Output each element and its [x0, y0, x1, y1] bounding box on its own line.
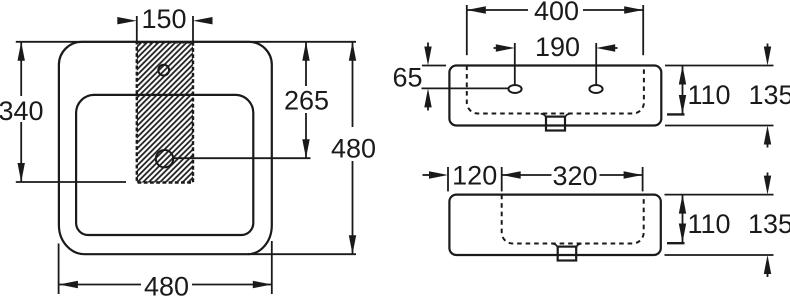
dimension 150 extension ticks [136, 16, 138, 44]
svg-text:320: 320 [552, 161, 597, 191]
dimension 480 bottom arrows [59, 281, 78, 288]
dimension 480 right arrows [349, 42, 356, 61]
leader line from drain hole to 265 dimension [174, 157, 311, 159]
svg-text:110: 110 [687, 209, 730, 239]
dimension 65 top tick [422, 65, 446, 67]
dimension 110 line (side view) [682, 195, 684, 243]
side view drain box [558, 247, 577, 261]
dimension 265 line [305, 42, 307, 86]
dimension 340 line [20, 42, 22, 96]
front view slab outline [449, 66, 661, 126]
front view right bottom extension line [665, 125, 774, 127]
svg-text:190: 190 [535, 32, 580, 62]
svg-text:265: 265 [284, 86, 329, 116]
dimension 135 top arrow (front view) [767, 44, 769, 51]
dimension 120/320 shared tick [501, 167, 503, 191]
front view faucet hole ellipses [508, 85, 521, 93]
dimension 110 bottom tick (side view) [667, 242, 685, 244]
inner basin rim (plan view) [76, 95, 253, 235]
outer basin outline (plan view 480x480) [59, 42, 272, 254]
front view drain left hook [541, 114, 546, 119]
dimension 120 left arrow [423, 174, 430, 176]
dimension 65 arrows [427, 43, 429, 51]
dimension 120 extension tick left [447, 167, 449, 191]
dimension 320 arrows [502, 171, 521, 178]
svg-text:65: 65 [392, 63, 422, 93]
dimension 480 bottom line [59, 284, 141, 286]
svg-text:135: 135 [748, 209, 790, 239]
front view drain right hook [565, 114, 570, 119]
dimension 400 extension lines [466, 5, 468, 55]
hatched tap platform area [137, 42, 193, 182]
dimension 150 arrows (outside, pointing inward) [117, 17, 137, 24]
dimension 320 line [502, 174, 552, 176]
dimension 190 arrows (outside, pointing inward) [494, 47, 501, 49]
svg-text:150: 150 [141, 4, 186, 34]
front view drain box [546, 117, 565, 131]
side view right top extension line [665, 194, 774, 196]
faucet hole (small circle) [158, 65, 169, 76]
drain hole (large circle) [156, 150, 173, 167]
dimension 400 line [467, 9, 528, 11]
faucet hole extension lines up (190 dimension) [514, 43, 516, 85]
side view right bottom extension line [665, 254, 774, 256]
bottom-right reference line for 480 right dimension [248, 253, 356, 255]
dimension 480 right line [352, 42, 354, 127]
dimension 110 bottom tick (front view) [667, 113, 685, 115]
front view inner basin dashed outline [467, 66, 644, 114]
side view inner basin dashed outline [502, 195, 644, 244]
hatched area dashed border [137, 42, 193, 182]
dimension 135 bottom arrow (side view) [767, 271, 769, 278]
svg-text:135: 135 [748, 80, 790, 110]
svg-text:110: 110 [687, 80, 730, 110]
dimension 135 bottom arrow (front view) [767, 141, 769, 148]
leader line through faucet holes [422, 87, 509, 89]
dimension 400 arrows [467, 6, 486, 13]
dimension 480 bottom extension lines [58, 244, 60, 295]
svg-text:480: 480 [331, 134, 376, 164]
top reference line (basin top edge extended both sides) [16, 41, 356, 43]
side view slab outline [449, 195, 660, 255]
svg-text:120: 120 [452, 161, 497, 191]
dimension 265 arrows [302, 42, 309, 61]
bottom reference line of 340 dimension [16, 181, 126, 183]
side view drain right hook [576, 244, 581, 249]
side view drain left hook [552, 244, 557, 249]
dimension 320 right extension line [642, 167, 644, 191]
svg-text:340: 340 [0, 96, 44, 126]
svg-text:480: 480 [144, 271, 189, 296]
dimension 340 arrows [18, 42, 25, 61]
svg-text:400: 400 [534, 0, 579, 26]
front view right top extension line [665, 65, 774, 67]
dimension 110 line (front view) [682, 66, 684, 115]
dimension 135 top arrow (side view) [767, 173, 769, 180]
